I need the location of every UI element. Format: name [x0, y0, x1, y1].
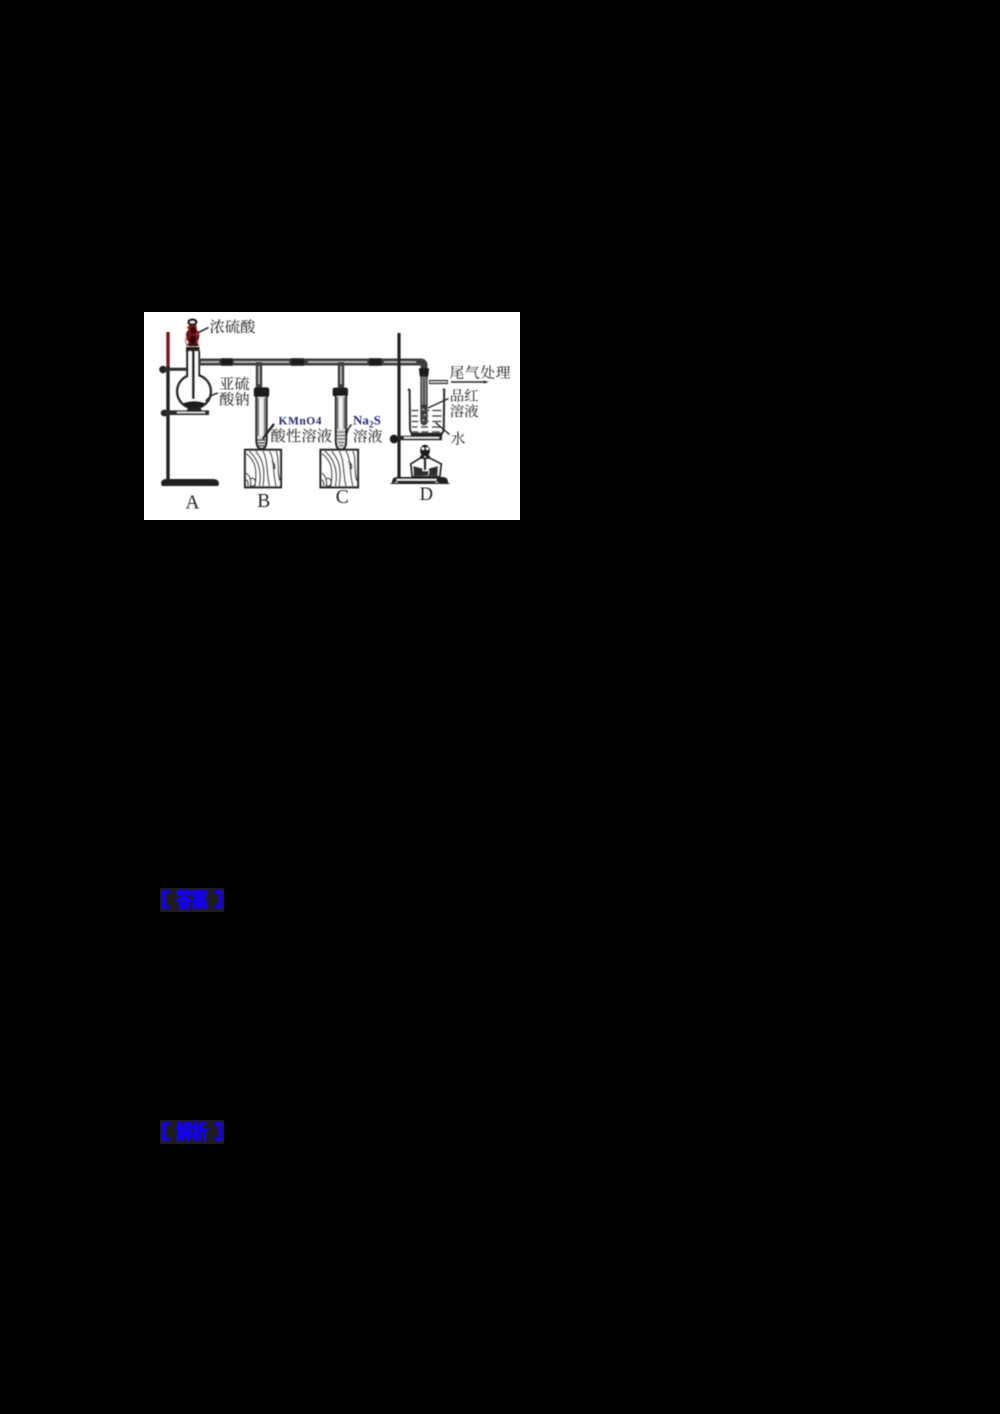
test tube B body — [256, 397, 266, 449]
label curve to tube C — [347, 425, 352, 435]
sodium sulfite (liquid) in flask — [184, 401, 205, 408]
inner test tube (fuchsin solution) — [421, 377, 427, 425]
main gas delivery tube — [198, 362, 424, 369]
label 品红 — [451, 389, 463, 402]
iron stand A pole — [166, 366, 169, 479]
svg-text:A: A — [185, 493, 199, 514]
fuchsin liquid blobs — [422, 405, 427, 425]
stand A clamp bolt upper — [159, 366, 167, 374]
T-stub down to tube B — [256, 362, 262, 388]
T-stub down to tube C — [338, 362, 344, 388]
side arm tube (tail gas) — [429, 380, 448, 384]
test tube B stopper — [254, 387, 269, 397]
beaker bottom shadow — [411, 433, 443, 436]
tail-gas arrow line — [451, 381, 485, 383]
alcohol inside — [413, 466, 438, 476]
alcohol lamp body — [411, 458, 441, 477]
wooden block B — [245, 450, 281, 488]
label 水 — [451, 431, 465, 445]
label line to tube B — [263, 424, 275, 439]
label 亚硫酸钠 (2 lines) — [220, 377, 234, 390]
label line to water — [436, 423, 450, 435]
svg-text:KMnO4: KMnO4 — [279, 416, 322, 428]
Na2S liquid in tube C — [337, 432, 345, 446]
funnel top ring — [189, 320, 197, 325]
test tube C stopper — [333, 388, 348, 397]
rubber connector 3 — [369, 358, 382, 366]
label 酸性溶液 — [271, 428, 285, 442]
heading 【解析】 — [160, 1120, 224, 1144]
flask neck — [186, 351, 188, 376]
cork pedestal under flask — [186, 408, 202, 411]
stand A clamp arm (holds flask neck) — [164, 368, 190, 371]
label 溶液 (D) — [450, 404, 463, 417]
funnel stem inside flask — [192, 350, 195, 399]
stand A support plate under flask — [166, 410, 209, 415]
test tube C body — [336, 396, 346, 450]
KMnO4 liquid in tube B — [258, 440, 266, 446]
tube highlight core — [201, 361, 219, 363]
iron stand A base — [161, 479, 219, 486]
svg-text:B: B — [257, 491, 270, 512]
label 尾气处理 — [450, 366, 463, 379]
water surface & waves — [411, 410, 441, 412]
iron stand D base — [390, 477, 450, 484]
svg-text:D: D — [420, 485, 433, 505]
rubber connector 1 — [221, 358, 233, 366]
heading 【答案】 — [160, 888, 224, 912]
iron stand D pole — [397, 333, 400, 478]
stand D clamp bolt — [390, 435, 398, 444]
round-bottom flask bulb — [177, 375, 211, 409]
stand A clamp bolt lower — [161, 410, 169, 417]
stand D ring platform — [398, 436, 442, 440]
iron stand A pole (red upper part) — [166, 332, 169, 368]
svg-text:C: C — [336, 487, 349, 508]
beaker — [408, 389, 445, 435]
rubber connector 2 — [291, 358, 304, 366]
label 浓硫酸 — [210, 319, 224, 333]
label line to funnel — [198, 328, 209, 334]
lamp wick — [424, 458, 427, 470]
wooden block C — [321, 450, 359, 488]
alcohol lamp cap — [420, 445, 430, 457]
label line to fuchsin tube — [428, 399, 449, 409]
label 溶液 (C) — [353, 429, 367, 443]
funnel stopper band — [186, 347, 200, 351]
scanned chemistry-apparatus figure — [144, 312, 520, 520]
svg-text:Na2S: Na2S — [353, 413, 381, 431]
dropping funnel body (concentrated H2SO4, red) — [186, 325, 199, 347]
stopper of inner tube D — [419, 368, 429, 376]
label curve to flask — [206, 393, 219, 401]
